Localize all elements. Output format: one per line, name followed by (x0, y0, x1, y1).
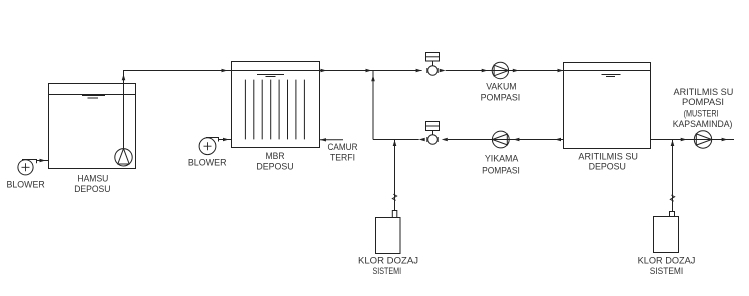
water level (MBR) (257, 75, 284, 77)
wire: chlorine dosing line 1 (to yikama line) (392, 140, 396, 211)
valve V1 (vakum line) (426, 53, 440, 76)
wire: chlorine dosing line 2 (to outlet line) (670, 140, 674, 212)
svg-text:KAPSAMINDA): KAPSAMINDA) (673, 119, 733, 129)
svg-text:DEPOSU: DEPOSU (589, 162, 626, 172)
wire: vakum line (MBR outlet to ARITILMIS SU tank) (320, 69, 564, 72)
svg-text:VAKUM: VAKUM (486, 82, 516, 92)
tank HAMSU DEPOSU (49, 84, 136, 169)
svg-text:KLOR DOZAJ: KLOR DOZAJ (638, 256, 696, 266)
label MBR DEPOSU (256, 151, 293, 172)
camur terfi stub (MBR right wall) (320, 138, 343, 141)
svg-text:ARITILMIS SU: ARITILMIS SU (674, 87, 734, 97)
water level (HAMSU) (82, 96, 105, 99)
pump P1 VAKUM POMPASI (492, 62, 508, 78)
tank KLOR DOZAJ SISTEMI 2 (654, 217, 679, 253)
pump P2 YIKAMA POMPASI (492, 131, 509, 148)
water level (ARITILMIS SU) (602, 75, 621, 77)
svg-text:(MUSTERI: (MUSTERI (684, 109, 719, 119)
wire: outlet line from ARITILMIS SU tank to customer (651, 138, 735, 141)
svg-text:CAMUR: CAMUR (328, 142, 358, 152)
svg-text:HAMSU: HAMSU (77, 174, 108, 184)
svg-text:DEPOSU: DEPOSU (74, 184, 110, 194)
submersible pump (HAMSU tank) (115, 149, 132, 166)
wire: HAMSU pump up and over to MBR inlet (122, 69, 232, 149)
klor dozaj tank 2 nub (670, 212, 675, 217)
svg-text:DEPOSU: DEPOSU (256, 162, 293, 172)
svg-text:POMPASI: POMPASI (682, 97, 724, 107)
tank ARITILMIS SU DEPOSU (564, 63, 651, 149)
svg-text:BLOWER: BLOWER (7, 179, 46, 189)
tank MBR DEPOSU (232, 62, 320, 148)
blower B2 (MBR) (199, 138, 231, 155)
svg-text:BLOWER: BLOWER (188, 157, 227, 167)
label HAMSU DEPOSU (74, 174, 110, 195)
svg-text:SISTEMI: SISTEMI (372, 266, 401, 276)
label KLOR DOZAJ SISTEMI 2 (638, 256, 696, 277)
svg-text:TERFI: TERFI (330, 153, 355, 163)
label YIKAMA POMPASI (482, 154, 520, 176)
label CAMUR TERFI (328, 142, 358, 163)
pump P3 ARITILMIS SU POMPASI (694, 131, 711, 148)
svg-text:ARITILMIS SU: ARITILMIS SU (578, 152, 638, 162)
wire: riser between vakum and yikama lines (371, 71, 375, 140)
tank KLOR DOZAJ SISTEMI 1 (376, 218, 401, 254)
svg-text:KLOR DOZAJ: KLOR DOZAJ (358, 256, 418, 266)
membrane plates (MBR) (245, 80, 304, 140)
wire: yikama line (riser to ARITILMIS SU tank) (373, 138, 564, 141)
valve V2 (yikama line) (426, 122, 440, 145)
blower B1 (left) (18, 159, 49, 175)
label KLOR DOZAJ SISTEMI 1 (358, 256, 418, 276)
svg-text:SISTEMI: SISTEMI (650, 266, 683, 276)
svg-text:YIKAMA: YIKAMA (485, 154, 519, 164)
label ARITILMIS SU POMPASI (MUSTERI KAPSAMINDA) (673, 87, 734, 129)
label ARITILMIS SU DEPOSU (578, 152, 638, 172)
label VAKUM POMPASI (481, 82, 521, 103)
svg-text:POMPASI: POMPASI (482, 165, 520, 175)
svg-text:POMPASI: POMPASI (481, 92, 521, 102)
svg-text:MBR: MBR (266, 151, 285, 161)
klor dozaj tank 1 nub (392, 211, 397, 218)
